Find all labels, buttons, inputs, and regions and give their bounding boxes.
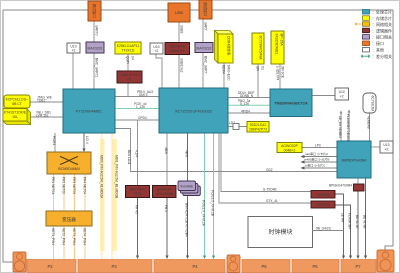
connector P5 seg xyxy=(242,260,290,273)
part U6 level shifter xyxy=(195,43,213,53)
wire T1 to P2 q1 xyxy=(51,226,55,259)
svg-text:9CT28W25/49A: 9CT28W25/49A xyxy=(259,36,263,61)
part U5 level shifter xyxy=(86,42,104,53)
wire M3 to CPU3 xyxy=(276,64,285,89)
svg-text:变压器: 变压器 xyxy=(62,216,76,223)
connector J1 debug xyxy=(88,1,101,21)
svg-text:64bit+ECC: 64bit+ECC xyxy=(227,65,231,81)
part R2 phy xyxy=(126,186,150,198)
svg-text:9xG4B8: 9xG4B8 xyxy=(180,185,192,189)
svg-text:：接口: ：接口 xyxy=(372,40,384,46)
svg-text:UART: UART xyxy=(204,22,208,31)
svg-text:7T45: 7T45 xyxy=(134,192,142,196)
svg-text:LVM 16L: LVM 16L xyxy=(36,114,49,118)
svg-text:GD2: GD2 xyxy=(266,168,273,172)
svg-text:P1: P1 xyxy=(127,78,131,82)
part YL2 flash 3d xyxy=(3,109,31,125)
wire T1 to P2 q2 xyxy=(62,226,66,259)
wire U4 to CPU1 xyxy=(72,53,74,89)
svg-text:×2: ×2 xyxy=(155,49,159,53)
wire CPU4 via RB1 to bar xyxy=(355,178,360,259)
svg-text:6CYUE3M: 6CYUE3M xyxy=(371,96,375,112)
svg-text:：其他: ：其他 xyxy=(372,47,384,53)
wire J3 to U6 to CPU2 xyxy=(203,19,208,88)
part RB1 tpm xyxy=(329,184,364,192)
svg-text:4.2/4: 4.2/4 xyxy=(135,150,139,157)
svg-text:UART0: UART0 xyxy=(95,25,99,36)
svg-text:：处理芯片: ：处理芯片 xyxy=(372,9,392,15)
svg-text:×2: ×2 xyxy=(72,49,76,53)
svg-text:TN8D0N4/GBCT2A: TN8D0N4/GBCT2A xyxy=(274,102,308,106)
part AGW spi flash xyxy=(277,143,302,153)
svg-text:X4: X4 xyxy=(131,56,135,60)
wire bus to R2 to bar xyxy=(135,120,140,259)
svg-text:1E_4M 9D/BE4: 1E_4M 9D/BE4 xyxy=(338,116,342,138)
wire CPU2 to Y4 xyxy=(228,121,247,127)
legend row1 processor xyxy=(363,9,393,15)
part U3 led xyxy=(380,141,393,153)
wire CPU3 to U2 xyxy=(312,95,335,97)
svg-text:PR1 NET01: PR1 NET01 xyxy=(51,177,55,194)
wire CLK to net xyxy=(313,226,344,230)
svg-text:BMC_UART2: BMC_UART2 xyxy=(95,58,99,77)
switch SW1 xyxy=(47,152,91,174)
net highlight band b xyxy=(113,139,118,251)
svg-text:PR3 NET03: PR3 NET03 xyxy=(72,177,76,194)
part TX1 transceiver xyxy=(311,201,335,208)
wire CPU1 net yellow b xyxy=(112,133,119,259)
chip CPU1 xyxy=(63,89,115,133)
arrow CPU4 uart c xyxy=(301,163,338,170)
wire net a to CPU4 xyxy=(338,111,343,142)
svg-text:SPI: SPI xyxy=(256,66,260,71)
connector P7 right xyxy=(377,250,394,272)
svg-text:BMMAXY: BMMAXY xyxy=(157,187,172,191)
svg-text:PCIE3.0_X4 M.2B: PCIE3.0_X4 M.2B xyxy=(211,190,215,216)
svg-text:USB: USB xyxy=(175,10,184,15)
svg-text:TF2K1Ω: TF2K1Ω xyxy=(122,49,135,53)
part YL1 jtag header xyxy=(4,95,30,108)
svg-text:MDI1_P/N 4G2.5M_B1 MDI2B: MDI1_P/N 4G2.5M_B1 MDI2B xyxy=(115,155,119,198)
svg-text:：差分相关: ：差分相关 xyxy=(372,53,392,59)
svg-text:4G04GQ16: 4G04GQ16 xyxy=(156,192,173,196)
wire CPU2 to TX1 xyxy=(219,133,311,203)
svg-text:P3: P3 xyxy=(111,264,117,269)
wire CPU2 to PS to bar xyxy=(185,133,190,259)
svg-text:BMC_UART: BMC_UART xyxy=(204,56,208,74)
connector P4 seg xyxy=(154,260,225,273)
svg-text:DMI 4: DMI 4 xyxy=(139,93,148,97)
wire CPU2 to R3 to bar xyxy=(164,133,169,259)
svg-text:T-MALS/T103: T-MALS/T103 xyxy=(119,73,140,77)
svg-text:9X32!9D43E1: 9X32!9D43E1 xyxy=(275,34,279,55)
legend row2 memory xyxy=(363,15,393,21)
part R4 cpld xyxy=(117,71,142,83)
svg-text:USB3: USB3 xyxy=(180,25,184,34)
svg-text:286P42P73: 286P42P73 xyxy=(249,127,267,131)
svg-text:PR2 NET02: PR2 NET02 xyxy=(62,177,66,194)
svg-text:5_12K: 5_12K xyxy=(240,102,250,106)
svg-text:PR4 NET04: PR4 NET04 xyxy=(83,177,87,194)
connector P1 left xyxy=(13,252,26,272)
svg-text:XC7Z235-2FFG0032: XC7Z235-2FFG0032 xyxy=(175,109,213,114)
wire CPU2 to AD1 xyxy=(221,133,311,192)
wire T1 to P2 q4 xyxy=(83,226,87,259)
svg-text:时钟模块: 时钟模块 xyxy=(268,228,292,236)
svg-text:245A/D1Y: 245A/D1Y xyxy=(169,49,185,53)
transformer T1 xyxy=(46,211,92,226)
svg-text:6B CT: 6B CT xyxy=(12,102,22,106)
wire WRB to CPU4 xyxy=(367,113,371,141)
svg-text:16L: 16L xyxy=(12,115,18,119)
svg-text:NET1_P/N4: NET1_P/N4 xyxy=(51,228,55,245)
arrow CPU4 uart a xyxy=(301,151,338,158)
bus CPU2-CPU3 a xyxy=(228,91,270,98)
svg-text:rs485串口 小卡片B: rs485串口 小卡片B xyxy=(304,157,329,162)
connector P3 seg xyxy=(78,260,152,273)
bus CPU1-CPU2 a xyxy=(115,90,159,97)
part U4 led xyxy=(67,43,80,53)
part U2 led xyxy=(335,88,349,100)
svg-text:P4: P4 xyxy=(192,264,198,269)
svg-text:DDR4: DDR4 xyxy=(222,65,226,74)
part R1 usb hub xyxy=(165,43,190,55)
svg-text:1E 4M: 1E 4M xyxy=(341,213,345,223)
wire net b to CPU4 xyxy=(346,110,351,143)
part AD1 transceiver xyxy=(311,191,335,199)
svg-text:PCIE3.0_X4 M.2A: PCIE3.0_X4 M.2A xyxy=(202,200,206,227)
arrow CPU4 uart b xyxy=(301,157,338,164)
svg-text:MDI0_P/N 4G2.5M_A1 MDI2A: MDI0_P/N 4G2.5M_A1 MDI2A xyxy=(100,155,104,199)
svg-text:：存储芯片: ：存储芯片 xyxy=(372,15,392,21)
svg-text:调试接口: 调试接口 xyxy=(92,4,97,19)
svg-text:USB3.0x2: USB3.0x2 xyxy=(180,58,184,73)
svg-text:FLASH7B4: FLASH7B4 xyxy=(348,213,352,229)
legend row8 diff signal xyxy=(361,53,392,59)
svg-text:调试接口: 调试接口 xyxy=(203,2,208,17)
svg-text:S-TXD4B: S-TXD4B xyxy=(263,187,276,191)
wire top bus xyxy=(3,9,393,11)
legend row3 network xyxy=(355,21,392,27)
svg-text:4B/N: 4B/N xyxy=(164,147,168,155)
svg-text:AD34G8: AD34G8 xyxy=(316,193,329,197)
svg-text:：接口相关: ：接口相关 xyxy=(372,34,392,40)
part WRB1 rtc xyxy=(363,93,376,113)
legend row6 connector xyxy=(363,40,385,46)
chip CPU3 xyxy=(270,89,312,117)
wire CPU2 pcie green a to bar xyxy=(202,133,207,259)
connector P45 tab xyxy=(227,255,240,273)
svg-text:8P~25A: 8P~25A xyxy=(280,34,284,47)
part U7 led xyxy=(150,43,163,54)
bus CPU2-CPU3 b pcie xyxy=(228,99,270,106)
wire CPU4 to U3 xyxy=(371,146,380,148)
svg-text:KCPCHLLDG~: KCPCHLLDG~ xyxy=(6,98,29,102)
wire CPU1 to SW1 b xyxy=(82,133,89,152)
wire U7 to CPU2 xyxy=(156,54,162,88)
svg-text:LCI 4: LCI 4 xyxy=(85,136,89,144)
svg-text:DDNB_N: DDNB_N xyxy=(240,94,254,98)
svg-text:PR 45: PR 45 xyxy=(135,205,139,214)
wire SW1 to T1 p4 xyxy=(83,174,87,211)
svg-text:P7: P7 xyxy=(355,264,361,269)
wire J1 to U5 to CPU1 xyxy=(94,21,99,89)
chip CPU2 xyxy=(159,88,228,133)
bus CPU1-CPU2 b pcie xyxy=(115,102,159,109)
part Y4 eeprom xyxy=(247,122,269,133)
svg-text:004B+2: 004B+2 xyxy=(284,148,296,152)
wire SW1 to T1 p1 xyxy=(51,174,55,211)
wire YL1 to CPU1 xyxy=(30,96,63,103)
part M1 ddr4 sodimm xyxy=(215,31,234,64)
svg-text:uart串口 小卡片A: uart串口 小卡片A xyxy=(305,151,328,156)
svg-text:P2: P2 xyxy=(47,264,53,269)
svg-text:BCM5D46M4: BCM5D46M4 xyxy=(58,167,80,171)
net highlight band a xyxy=(100,139,105,251)
svg-text:PB 4: PB 4 xyxy=(164,205,168,212)
connector P7 seg xyxy=(341,260,376,273)
svg-text:1_12K: 1_12K xyxy=(136,105,146,109)
svg-text:4B/N: 4B/N xyxy=(185,150,189,158)
svg-text:×2: ×2 xyxy=(340,94,344,98)
svg-text:QSPI: QSPI xyxy=(126,56,130,64)
svg-text:GTX_4L: GTX_4L xyxy=(266,199,278,203)
svg-text:9BP6DPS42BA: 9BP6DPS42BA xyxy=(342,159,368,163)
svg-text:BE 4L 4B: BE 4L 4B xyxy=(363,215,367,228)
svg-text:FLASH/B4T2B4D4B: FLASH/B4T2B4D4B xyxy=(346,114,350,143)
wire SW1 to T1 p3 xyxy=(72,174,76,211)
wire CPU1 net yellow a xyxy=(100,133,104,259)
wire T1 to P2 q3 xyxy=(72,226,76,259)
legend row7 other xyxy=(363,47,385,53)
legend row4 logic xyxy=(363,27,393,33)
svg-text:BM704BC: BM704BC xyxy=(130,187,146,191)
svg-text:1-3DL7P4: 1-3DL7P4 xyxy=(276,66,280,81)
connector J2 usb xyxy=(168,3,190,22)
svg-text:NET4_P/N4: NET4_P/N4 xyxy=(83,228,87,245)
part LD7 inline box xyxy=(233,124,239,130)
wire AGW to CPU4 LPC xyxy=(302,143,337,147)
svg-text:X1: X1 xyxy=(261,66,265,70)
svg-text:BD 4L 4E: BD 4L 4E xyxy=(355,215,359,229)
svg-text:MAX3232: MAX3232 xyxy=(197,46,212,50)
svg-text:BPNx/G4700M4: BPNx/G4700M4 xyxy=(329,184,352,188)
wire CPU1 to CPU4 long xyxy=(115,129,337,172)
wire CPU4 to bar xyxy=(363,178,368,259)
part R3 phy xyxy=(153,186,177,198)
wire Y1 to R4 to bus xyxy=(126,54,135,97)
svg-text:NET3_P/N4: NET3_P/N4 xyxy=(72,228,76,245)
part M3 emmc v xyxy=(271,31,284,64)
part M2 spi flash v xyxy=(252,33,264,64)
svg-text:：逻辑器件: ：逻辑器件 xyxy=(372,27,392,33)
svg-text:PCIE1: PCIE1 xyxy=(52,136,56,145)
wire CPU2 pcie green b to bar xyxy=(211,133,216,259)
part Y1 spi flash xyxy=(115,42,141,54)
bus CPU2-CPU3 c xyxy=(228,109,270,113)
svg-text:BMI 4D/4T/2B 4T/TDB4: BMI 4D/4T/2B 4T/TDB4 xyxy=(185,203,189,237)
svg-text:BD4 LD11: BD4 LD11 xyxy=(127,150,131,165)
svg-text:：网络相关: ：网络相关 xyxy=(372,21,392,27)
svg-text:TDB1: TDB1 xyxy=(37,99,45,103)
chip CPU4 bmc xyxy=(337,141,371,178)
svg-text:4P/D4: 4P/D4 xyxy=(241,109,250,113)
wire TX1 to bar xyxy=(335,205,352,259)
svg-text:io串口 小卡片C: io串口 小卡片C xyxy=(305,163,326,168)
part PS sd stack xyxy=(178,181,200,196)
bus CPU1-CPU2 c xyxy=(115,116,159,120)
wire right perimeter xyxy=(385,10,393,251)
svg-text:FT2D00/4M6C: FT2D00/4M6C xyxy=(76,109,102,114)
legend row5 interface chip xyxy=(363,34,393,40)
module CLK clock xyxy=(248,217,313,248)
svg-text:×2: ×2 xyxy=(385,147,389,151)
svg-text:P5: P5 xyxy=(261,264,267,269)
connector P6 seg xyxy=(292,260,339,273)
connector P2 seg xyxy=(27,260,76,273)
wire CPU1 to SW1 a xyxy=(52,133,56,152)
wire AD1 to bar xyxy=(335,194,345,259)
svg-text:LPC: LPC xyxy=(315,143,322,147)
wire SW1 to T1 p2 xyxy=(62,174,66,211)
wire YL2 to CPU1 xyxy=(29,111,63,118)
svg-text:GPD4: GPD4 xyxy=(138,116,147,120)
svg-text:MAX3232: MAX3232 xyxy=(88,47,103,51)
svg-text:3W 9CE: 3W 9CE xyxy=(281,66,285,78)
svg-text:NET2_P/N4: NET2_P/N4 xyxy=(62,228,66,245)
wire M1 to CPU2 xyxy=(222,63,231,88)
svg-text:E28KLD1AP11: E28KLD1AP11 xyxy=(117,44,140,48)
svg-text:4L/BE4B: 4L/BE4B xyxy=(367,116,371,129)
wire left perimeter xyxy=(3,10,13,262)
svg-text:9B_G4/2S: 9B_G4/2S xyxy=(316,226,331,230)
wire M2 to bus2 xyxy=(256,64,265,98)
svg-text:DDR4迷你条: DDR4迷你条 xyxy=(227,36,232,56)
svg-text:TX3ETD4: TX3ETD4 xyxy=(316,203,331,207)
svg-text:P6: P6 xyxy=(312,264,318,269)
wire J2 to R1 to CPU2 xyxy=(179,22,184,88)
connector J3 debug xyxy=(199,0,212,19)
